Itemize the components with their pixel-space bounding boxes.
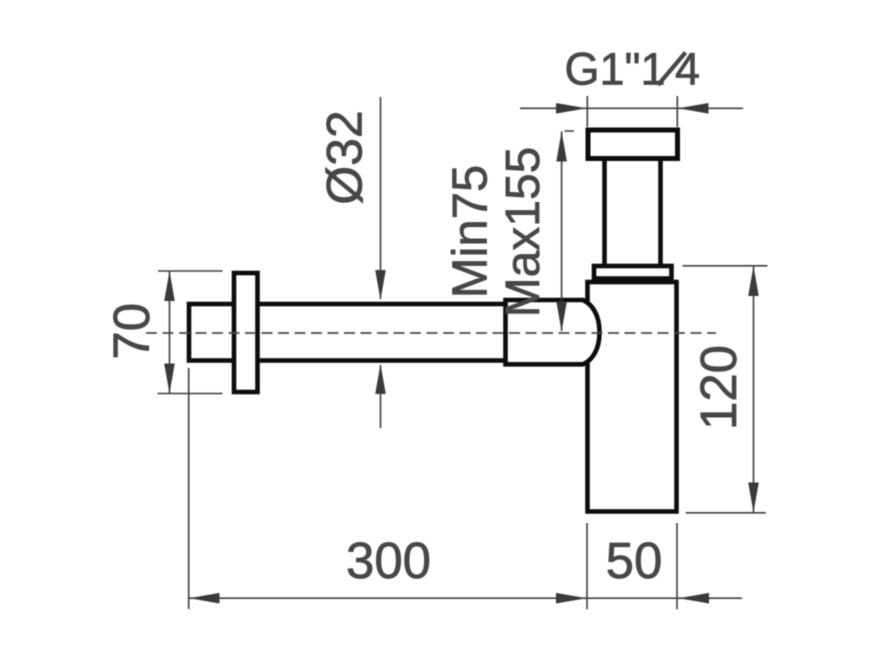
svg-text:4: 4 [675,44,700,95]
centerline (dashed axis) [146,332,716,334]
wall flange (rosette) [234,273,258,392]
arrow 50 outer [679,593,710,604]
arrow Min/Max up [556,131,567,161]
svg-text:G1"1: G1"1 [565,44,666,95]
dim 120 line [753,266,755,513]
arrow G right [678,103,709,114]
dim 120 ext bottom [686,512,766,514]
dim G ext right [676,96,678,127]
svg-text:Max155: Max155 [497,147,550,318]
dim 70 line [169,271,171,394]
arrow O32 up [375,364,386,394]
arrow 120 down [748,483,759,513]
dim G1"1/4 line [520,107,743,109]
arrow 70 up [164,271,175,301]
dim 50 ext left (body left) [586,523,588,609]
arrow 300 right [556,593,587,604]
label G fraction slash [658,53,686,86]
svg-text:70: 70 [103,303,160,360]
svg-text:50: 50 [606,532,663,589]
svg-text:300: 300 [346,532,431,589]
top nut G1"1/4 [588,130,678,159]
dim 300/50 baseline [189,597,742,599]
vertical outlet tube [605,157,661,269]
svg-text:Ø32: Ø32 [317,110,373,205]
svg-text:Min75: Min75 [444,165,498,298]
dim 120 ext top [683,265,768,267]
dim G ext left [586,96,588,127]
trap body cylinder [588,282,677,512]
dim O32 line lower [380,365,382,428]
tube flange on body [594,266,672,279]
arrow Min/Max down [556,302,567,332]
dim Min/Max top tick [565,130,575,132]
horizontal inlet pipe [189,304,507,361]
dim 70 ext bottom [158,393,223,395]
arrow 120 up [748,266,759,296]
arrow 70 down [164,364,175,394]
inlet connector nut with rounded end [506,300,600,364]
arrow 300 left [189,593,220,604]
arrow G left [556,103,587,114]
dim O32 line upper [380,97,382,299]
dim 300 ext left [188,368,190,609]
dim Min75/Max155 line [561,131,563,331]
dim 50 ext right (body right) [676,523,678,609]
arrow O32 down [375,270,386,300]
dim 70 ext top [158,270,223,272]
svg-text:120: 120 [690,345,747,430]
